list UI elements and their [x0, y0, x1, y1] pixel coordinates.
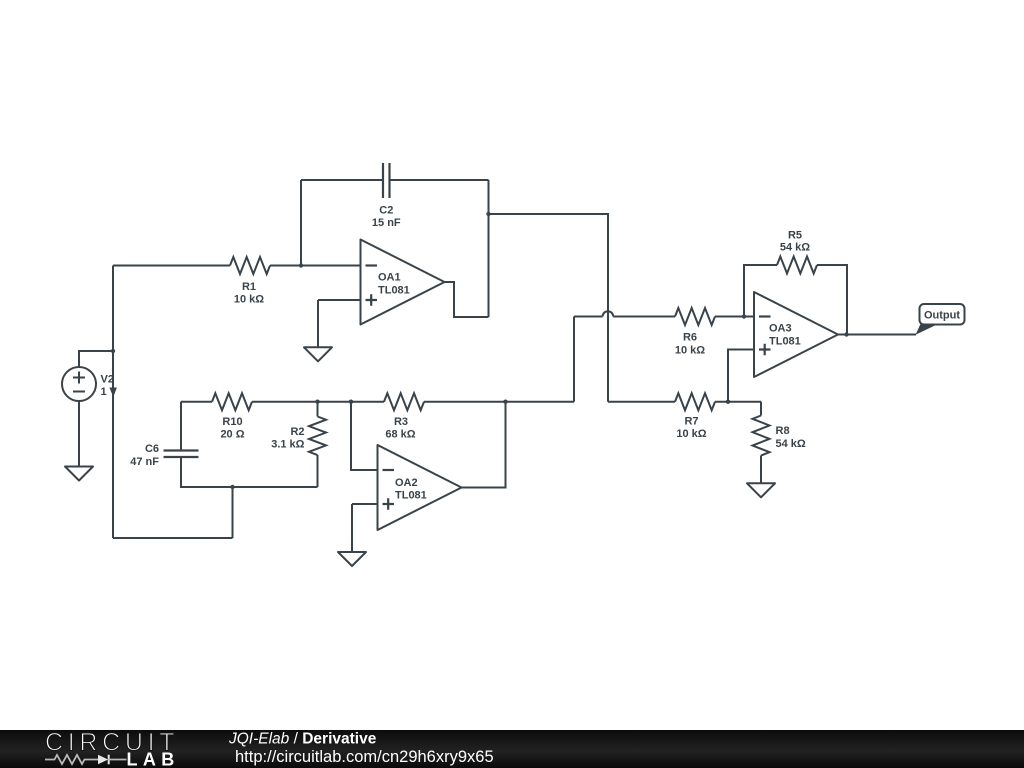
- svg-text:10 kΩ: 10 kΩ: [675, 345, 705, 357]
- wire C6 top vertical: [180, 402, 182, 451]
- resistor R10: [212, 393, 252, 410]
- wire OA2 plus ground stem: [351, 504, 353, 552]
- capacitor C6: [164, 451, 199, 458]
- svg-text:10 kΩ: 10 kΩ: [234, 294, 264, 306]
- wire C2 right lead: [390, 179, 489, 181]
- node junction OA2 output: [503, 400, 507, 404]
- ground at OA2 plus: [338, 552, 366, 566]
- resistor R7: [675, 393, 715, 410]
- wire hop over vertical: [603, 311, 614, 316]
- svg-text:R5: R5: [788, 230, 802, 242]
- wire OA1 branch to R7: [608, 401, 675, 403]
- wire OA2 minus input: [351, 402, 378, 470]
- svg-text:R3: R3: [394, 416, 408, 428]
- svg-text:OA2: OA2: [395, 477, 418, 489]
- current arrow on wire at V2: [109, 388, 116, 397]
- wire OA1 plus ground stem: [317, 300, 319, 347]
- wire R1 left lead: [113, 265, 230, 267]
- svg-text:R1: R1: [242, 281, 256, 293]
- svg-text:TL081: TL081: [769, 336, 801, 348]
- svg-text:V2: V2: [101, 374, 114, 386]
- wire OA2 output up to R3 net: [462, 402, 506, 488]
- resistor R5: [777, 257, 817, 274]
- svg-text:JQI-Elab / Derivative: JQI-Elab / Derivative: [228, 731, 377, 748]
- output flag box: [920, 304, 965, 325]
- svg-text:R7: R7: [684, 416, 698, 428]
- svg-text:15 nF: 15 nF: [372, 217, 401, 229]
- wire to R6 with crossover hop: [574, 316, 603, 318]
- output flag pointer: [916, 324, 939, 335]
- logo resistor-diode glyph: [45, 755, 98, 764]
- svg-text:LAB: LAB: [127, 750, 180, 768]
- wire R6 to OA3 minus: [715, 316, 754, 318]
- svg-text:R2: R2: [290, 426, 304, 438]
- resistor R2 vertical: [317, 402, 319, 417]
- wire OA1 output: [445, 282, 489, 317]
- node junction R1 / C2 feedback: [299, 263, 303, 267]
- resistor R8 vertical: [760, 402, 762, 416]
- wire OA3 output: [838, 334, 916, 336]
- node junction OA3 output / R5: [844, 332, 848, 336]
- node junction OA2 minus tap: [349, 400, 353, 404]
- wire R1 to OA1 minus input: [270, 265, 361, 267]
- wire C2 right vertical to OA1 output: [488, 180, 490, 317]
- svg-text:Output: Output: [924, 310, 960, 322]
- wire bottom loop horizontal: [113, 537, 233, 539]
- svg-text:3.1 kΩ: 3.1 kΩ: [271, 439, 304, 451]
- wire OA1 plus input: [318, 299, 361, 301]
- ground at OA1 plus: [304, 347, 332, 361]
- op-amp OA1: [361, 240, 445, 325]
- svg-text:OA3: OA3: [769, 323, 792, 335]
- svg-text:47 nF: 47 nF: [130, 456, 159, 468]
- wire R5 left vertical: [744, 265, 777, 317]
- svg-text:10 kΩ: 10 kΩ: [676, 428, 706, 440]
- svg-text:TL081: TL081: [395, 490, 427, 502]
- ground under V2: [65, 467, 93, 481]
- wire input left vertical (R1 left to bottom loop): [112, 266, 114, 539]
- wire OA3 plus input: [728, 350, 754, 402]
- wire V2 bottom lead: [78, 401, 80, 467]
- resistor R6: [675, 308, 715, 325]
- svg-text:1 V: 1 V: [101, 386, 118, 398]
- svg-text:20 Ω: 20 Ω: [220, 429, 244, 441]
- wire C6 bottom to loop: [181, 457, 318, 487]
- capacitor C2: [383, 163, 390, 198]
- wire V2 top tap: [79, 351, 113, 367]
- svg-text:R6: R6: [683, 332, 697, 344]
- wire R10 to R3: [252, 401, 384, 403]
- op-amp OA3: [754, 292, 838, 377]
- svg-text:68 kΩ: 68 kΩ: [385, 429, 415, 441]
- svg-text:OA1: OA1: [378, 272, 401, 284]
- svg-text:54 kΩ: 54 kΩ: [776, 438, 806, 450]
- ground under R8: [747, 483, 775, 497]
- svg-text:C6: C6: [145, 443, 159, 455]
- op-amp OA2: [378, 445, 462, 530]
- wire OA2 plus input: [352, 503, 378, 505]
- svg-text:R10: R10: [222, 416, 242, 428]
- voltage source V2: [62, 367, 96, 401]
- node junction OA3 minus / R5: [742, 314, 746, 318]
- wire R7 to R8 corner: [715, 401, 761, 403]
- wire R10 left lead: [181, 401, 212, 403]
- svg-text:http://circuitlab.com/cn29h6xr: http://circuitlab.com/cn29h6xry9x65: [235, 748, 494, 766]
- wire C2 left lead: [301, 179, 383, 181]
- svg-text:R8: R8: [776, 425, 790, 437]
- node junction R2 top: [315, 400, 319, 404]
- svg-text:C2: C2: [379, 205, 393, 217]
- resistor R1: [230, 257, 270, 274]
- wire C2 left vertical: [300, 180, 302, 266]
- node junction bottom loop: [230, 485, 234, 489]
- svg-text:TL081: TL081: [378, 285, 410, 297]
- footer bar: [0, 730, 1024, 768]
- wire net to R6 rise: [573, 317, 575, 402]
- node junction V2 tap: [111, 349, 115, 353]
- wire bottom loop rise to C6 net: [232, 487, 234, 538]
- node junction OA3 plus / R8: [726, 400, 730, 404]
- wire OA1 output to crossover vertical: [489, 214, 609, 402]
- wire R3 to OA2 output node: [424, 401, 574, 403]
- resistor R3: [384, 393, 424, 410]
- wire R5 right vertical: [817, 265, 847, 335]
- node junction OA1 output branch: [486, 212, 490, 216]
- svg-text:54 kΩ: 54 kΩ: [780, 242, 810, 254]
